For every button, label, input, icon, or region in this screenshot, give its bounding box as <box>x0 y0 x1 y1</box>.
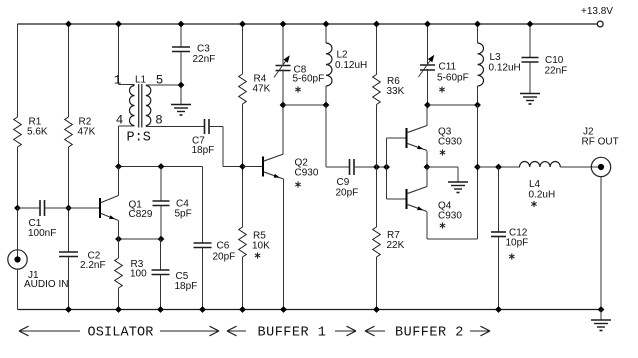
label C6 20pF <box>213 241 236 263</box>
capacitor C5 <box>152 239 170 310</box>
svg-text:0.12uH: 0.12uH <box>335 60 367 71</box>
wire C11 node to L3 <box>428 104 478 106</box>
label R6 33K <box>387 76 405 97</box>
junction Q2 base node <box>239 163 246 170</box>
svg-text:5-60pF: 5-60pF <box>437 73 469 84</box>
junction L3 top <box>474 21 481 28</box>
wire C1 left lead <box>18 207 41 209</box>
label pin 8 <box>155 114 163 128</box>
asterisk C8 <box>295 86 300 92</box>
junction C2 bottom <box>65 306 72 313</box>
wire C8 top lead <box>282 24 284 66</box>
wire R2 to C2 <box>68 147 70 252</box>
label C2 2.2nF <box>80 251 106 272</box>
ground G4 main <box>591 320 611 331</box>
wire C2 to rail <box>68 257 70 310</box>
asterisk C11 <box>439 86 444 92</box>
junction L3 bottom <box>474 102 481 109</box>
wire R2 branch top <box>68 24 70 117</box>
label BUFFER 2 <box>395 326 464 341</box>
svg-text:C930: C930 <box>438 211 462 222</box>
wire C10 to ground <box>529 62 531 94</box>
svg-text:L2: L2 <box>337 50 349 61</box>
junction L1 pin1 top <box>115 21 122 28</box>
svg-text:C9: C9 <box>337 177 350 188</box>
label Q1 C829 <box>129 200 153 221</box>
label C12 10pF <box>506 228 529 249</box>
junction Q2 emitter bottom <box>280 306 287 313</box>
wire output to L4 <box>478 166 521 168</box>
resistor R5 <box>239 227 247 257</box>
asterisk R5 <box>255 252 260 258</box>
svg-text:C930: C930 <box>295 168 319 179</box>
label C4 5pF <box>175 199 192 220</box>
capacitor C1 <box>40 200 45 216</box>
asterisk Q4 <box>440 222 445 228</box>
wire L4 to J2 <box>560 166 601 168</box>
junction ground rail right <box>598 306 605 313</box>
wire Q4 base lead <box>387 198 407 200</box>
svg-text:0.12uH: 0.12uH <box>489 63 521 74</box>
svg-text:2.2nF: 2.2nF <box>80 260 106 271</box>
label C10 22nF <box>545 55 568 77</box>
ground G1 oscillator <box>171 105 191 116</box>
capacitor C9 <box>350 159 355 175</box>
label L3 0.12uH <box>489 52 521 74</box>
junction C4 top <box>158 163 165 170</box>
label R4 47K <box>253 74 271 95</box>
label pin 1 <box>114 74 122 88</box>
svg-text:100: 100 <box>130 269 147 280</box>
svg-text:BUFFER 1: BUFFER 1 <box>258 326 327 341</box>
wire C7 to Q2 base node <box>209 127 243 167</box>
transformer L1 secondary <box>146 86 151 126</box>
asterisk Q2 <box>295 181 300 187</box>
wire C8 to collector node <box>282 70 284 155</box>
svg-text:1: 1 <box>114 74 122 88</box>
inductor L2 <box>326 43 332 86</box>
junction R5 bottom <box>239 306 246 313</box>
inductor L3 <box>478 43 484 86</box>
wire C3 top lead <box>180 24 182 47</box>
junction L2 bottom <box>323 102 330 109</box>
capacitor C10 <box>522 58 539 63</box>
transformer L1 primary <box>130 86 135 126</box>
wire R4 top lead <box>242 24 244 74</box>
wire C1 to Q1 base <box>45 207 101 209</box>
svg-text:C11: C11 <box>439 62 457 73</box>
svg-text:C6: C6 <box>217 241 230 252</box>
junction Q3 emitter node <box>424 164 431 171</box>
label BUFFER 1 <box>258 326 327 341</box>
svg-text:18pF: 18pF <box>192 145 215 156</box>
junction emitter net left <box>115 236 122 243</box>
junction Q3Q4 base node <box>383 164 390 171</box>
svg-text:L3: L3 <box>490 52 502 63</box>
svg-text:OSILATOR: OSILATOR <box>88 326 154 341</box>
wire J2 shell to rail <box>600 177 602 310</box>
wire L1 pin8 to C7 <box>146 126 205 128</box>
wire C10 top lead <box>529 24 531 58</box>
resistor R3 <box>115 258 123 288</box>
junction C11 top <box>424 21 431 28</box>
junction L2 top <box>323 21 330 28</box>
svg-text:C10: C10 <box>545 55 564 66</box>
asterisk L4 <box>531 201 536 207</box>
wire Q4 collector lead <box>426 167 428 187</box>
svg-text:20pF: 20pF <box>336 188 359 199</box>
label C3 22nF <box>193 44 216 66</box>
svg-text:L4: L4 <box>529 179 541 190</box>
svg-text:5-60pF: 5-60pF <box>293 74 325 85</box>
svg-text:47K: 47K <box>253 84 271 95</box>
svg-text:L1: L1 <box>135 75 147 86</box>
wire C9 to base node <box>354 166 387 168</box>
label Q2 C930 <box>295 158 319 179</box>
wire L3 top lead <box>477 24 479 43</box>
label R7 22K <box>387 230 405 251</box>
wire Q2 emitter to rail <box>283 179 285 310</box>
label J2 RF OUT <box>582 127 619 148</box>
asterisk Q3 <box>440 149 445 155</box>
svg-text:C829: C829 <box>129 209 153 220</box>
capacitor C12 <box>491 167 506 310</box>
junction C3 top <box>178 21 185 28</box>
arrow oscillator right <box>160 326 219 336</box>
junction C12 bottom <box>495 306 502 313</box>
label R1 5.6K <box>27 117 48 138</box>
wire Q3 emitter to gnd node <box>426 151 428 167</box>
wire L3 to output node <box>477 105 479 167</box>
junction R6 top <box>373 21 380 28</box>
wire R7 to rail <box>376 257 378 310</box>
label R5 10K <box>252 231 270 252</box>
wire R4 to base node <box>242 104 244 227</box>
junction emitter net right <box>158 236 165 243</box>
label J1 AUDIO IN <box>24 270 68 290</box>
svg-text:100nF: 100nF <box>28 228 56 239</box>
junction C10 top <box>527 21 534 28</box>
label P:S <box>127 131 151 146</box>
junction output node <box>474 164 481 171</box>
junction R3 bottom <box>115 306 122 313</box>
wire C1 node to J1 <box>17 208 19 260</box>
junction C6 bottom <box>199 306 206 313</box>
wire R6 top lead <box>376 24 378 75</box>
svg-text:4: 4 <box>116 114 124 128</box>
svg-text:RF OUT: RF OUT <box>582 137 619 148</box>
svg-text:C930: C930 <box>438 137 462 148</box>
wire L1 pin4 lead <box>119 126 135 167</box>
wire emitter net <box>119 238 162 240</box>
inductor L4 <box>520 162 561 168</box>
node C1 left junction <box>14 205 21 212</box>
capacitor C6 <box>194 167 212 310</box>
junction C8 top <box>280 21 287 28</box>
junction C8/L2 node <box>280 102 287 109</box>
wire L2 bottom lead <box>325 86 327 105</box>
ground G3 supply <box>520 94 540 105</box>
resistor R6 <box>373 75 381 105</box>
wire Q1 emitter to R3 <box>118 221 120 259</box>
svg-text:10K: 10K <box>252 241 270 252</box>
ground G2 buffer2 <box>448 182 468 193</box>
svg-text:BUFFER 2: BUFFER 2 <box>395 326 464 341</box>
svg-text:10pF: 10pF <box>506 238 529 249</box>
wire L2 node to C9 <box>326 105 350 167</box>
wire L2 top lead <box>325 24 327 43</box>
label +13.8V <box>581 6 613 17</box>
transistor Q1 <box>100 196 119 221</box>
capacitor C7 <box>205 119 210 134</box>
svg-text:0.2uH: 0.2uH <box>529 190 556 201</box>
arrow buffer2 left <box>365 326 385 336</box>
label C7 18pF <box>192 136 215 157</box>
svg-text:20pF: 20pF <box>213 252 236 263</box>
wire C11 to node <box>427 69 429 105</box>
label Q3 C930 <box>438 127 462 148</box>
label L4 0.2uH <box>529 179 556 201</box>
label L1 <box>135 75 147 86</box>
power terminal +13.8V <box>597 21 603 27</box>
connector J2 <box>591 157 610 176</box>
wire R6 to node <box>376 105 378 228</box>
junction R6/R7 node <box>373 164 380 171</box>
capacitor C8 variable <box>274 55 291 77</box>
wire Q2 base lead <box>243 166 264 168</box>
svg-text:18pF: 18pF <box>175 281 198 292</box>
wire Q3 base lead <box>387 137 407 139</box>
label L2 0.12uH <box>335 50 367 72</box>
wire Q1 collector lead <box>118 167 120 196</box>
svg-text:22K: 22K <box>387 240 405 251</box>
svg-text:22nF: 22nF <box>545 66 568 77</box>
capacitor C3 <box>172 47 190 52</box>
svg-text:+13.8V: +13.8V <box>581 6 613 17</box>
label pin 4 <box>116 114 124 128</box>
wire C8 node to L2 <box>283 104 326 106</box>
junction C5 bottom <box>157 306 164 313</box>
junction C12 top <box>495 164 502 171</box>
svg-text:22nF: 22nF <box>193 54 216 65</box>
wire bottom ground rail <box>18 309 602 311</box>
label C1 100nF <box>28 218 56 239</box>
wire Q3Q4 base bus <box>386 138 388 199</box>
svg-text:33K: 33K <box>387 86 405 97</box>
arrow buffer1 right <box>335 326 356 336</box>
wire Q3 collector lead <box>426 105 428 126</box>
transistor Q4 <box>407 187 428 212</box>
wire +13.8V top power rail <box>18 23 598 25</box>
arrow oscillator left <box>19 326 80 336</box>
resistor R4 <box>239 74 247 104</box>
label Q4 C930 <box>438 201 462 222</box>
wire L1 pin5 to C3 node <box>146 84 181 86</box>
label pin 5 <box>156 74 164 88</box>
wire R5 to rail <box>242 257 244 310</box>
svg-text:P:S: P:S <box>127 131 151 146</box>
junction R4 top <box>239 21 246 28</box>
wire collector net <box>119 166 203 168</box>
label C9 20pF <box>336 177 359 199</box>
svg-text:AUDIO IN: AUDIO IN <box>24 279 68 290</box>
wire rail to G4 <box>600 310 602 321</box>
wire J1 shell to ground rail <box>17 269 19 309</box>
capacitor C4 <box>153 167 170 240</box>
label R3 100 <box>130 259 147 280</box>
junction R7 bottom <box>373 306 380 313</box>
transistor Q2 <box>263 154 284 179</box>
wire C11 top lead <box>427 24 429 65</box>
arrow buffer1 left <box>227 326 246 336</box>
wire L3 bottom lead <box>477 86 479 105</box>
connector J1 <box>8 250 27 269</box>
wire L1 pin1 branch <box>119 24 135 85</box>
label C11 5-60pF <box>437 62 469 84</box>
resistor R2 <box>65 117 73 147</box>
junction R2 top <box>65 21 72 28</box>
junction C3/L1 node <box>178 82 185 89</box>
asterisk C12 <box>509 253 514 259</box>
junction collector/pin4 <box>115 163 122 170</box>
junction R2/C1 node <box>65 205 72 212</box>
capacitor C2 <box>59 252 78 257</box>
svg-text:5.6K: 5.6K <box>27 127 48 138</box>
junction C11 bottom node <box>424 102 431 109</box>
arrow buffer2 right <box>470 326 490 336</box>
resistor R1 <box>14 117 22 147</box>
transistor Q3 <box>407 126 428 151</box>
wire Q4 emitter to output <box>427 167 478 239</box>
wire R3 to rail <box>118 288 120 310</box>
wire C3 to ground node <box>180 52 182 105</box>
transformer L1 core <box>139 84 142 128</box>
label R2 47K <box>78 117 96 138</box>
label OSILATOR <box>88 326 154 341</box>
svg-text:8: 8 <box>155 114 163 128</box>
label C5 18pF <box>175 271 198 292</box>
label C8 5-60pF <box>293 65 325 85</box>
resistor R7 <box>373 227 381 257</box>
svg-text:5pF: 5pF <box>175 209 192 220</box>
wire R1 to C1 node <box>17 147 19 208</box>
svg-text:C3: C3 <box>197 44 210 55</box>
capacitor C11 variable <box>419 55 436 77</box>
wire gnd stub <box>427 167 458 182</box>
svg-text:47K: 47K <box>78 127 96 138</box>
wire R1 branch top <box>17 24 19 117</box>
